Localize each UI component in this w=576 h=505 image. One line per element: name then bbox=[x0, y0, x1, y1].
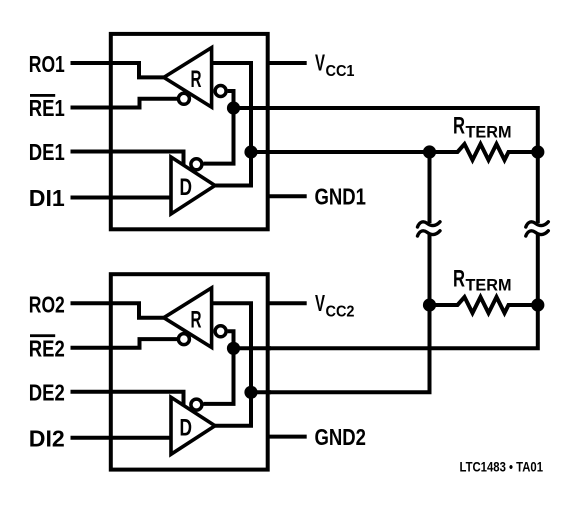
wire VCC2 stub bbox=[268, 301, 307, 305]
node left bus bottom bbox=[423, 298, 436, 311]
wire RE1 lead bbox=[71, 99, 178, 108]
receiver R2 triangle bbox=[164, 288, 212, 348]
node B2 junction bbox=[227, 342, 240, 355]
wire GND2 stub bbox=[268, 435, 307, 439]
svg-text:D: D bbox=[180, 174, 193, 201]
svg-text:R: R bbox=[453, 113, 465, 140]
node left bus top bbox=[423, 145, 436, 158]
IC box U1 outline bbox=[111, 34, 268, 229]
svg-text:TERM: TERM bbox=[466, 277, 512, 295]
svg-text:RE2: RE2 bbox=[29, 336, 65, 362]
transceiver U2 bbox=[71, 274, 307, 469]
svg-text:RE1: RE1 bbox=[29, 95, 65, 121]
IC box U2 outline bbox=[111, 274, 268, 469]
svg-text:R: R bbox=[191, 66, 202, 93]
svg-text:DI2: DI2 bbox=[29, 426, 65, 452]
wire GND1 stub bbox=[268, 194, 307, 198]
svg-text:DI1: DI1 bbox=[29, 185, 65, 211]
bubble receiver R1 inverting input bbox=[215, 86, 226, 97]
node right bus top bbox=[531, 145, 544, 158]
break symbol left bus lower squiggle bbox=[418, 231, 441, 236]
wire VCC1 stub bbox=[268, 61, 307, 65]
wire B1 to right bus bbox=[269, 108, 538, 223]
wire A1 to left bus bbox=[269, 152, 430, 223]
svg-text:CC2: CC2 bbox=[326, 303, 355, 320]
wire DE2 lead bbox=[71, 392, 184, 407]
break symbol right bus upper squiggle bbox=[526, 222, 549, 227]
driver D2 triangle bbox=[171, 397, 215, 454]
wire DE1 lead bbox=[71, 152, 184, 167]
node A1 junction bbox=[244, 145, 257, 158]
svg-text:GND2: GND2 bbox=[315, 424, 367, 450]
wire RO1 lead bbox=[71, 63, 166, 77]
break symbol left bus upper squiggle bbox=[418, 222, 441, 227]
bubble driver D1 inverting output bbox=[191, 159, 202, 170]
svg-text:V: V bbox=[315, 50, 325, 76]
wire RO2 lead bbox=[71, 303, 166, 317]
node B1 junction bbox=[227, 101, 240, 114]
resistor RTERM top bbox=[430, 144, 538, 160]
wire net B1 exit bbox=[234, 106, 272, 110]
wire net B1 (receiver inverting input to driver inverting output) bbox=[204, 91, 234, 164]
receiver R1 triangle bbox=[164, 48, 212, 108]
wire net A2 (receiver input to driver output) bbox=[212, 303, 251, 426]
transceiver U1 bbox=[71, 34, 307, 229]
bubble driver D2 inverting output bbox=[191, 399, 202, 410]
svg-text:GND1: GND1 bbox=[315, 184, 367, 210]
svg-text:RO1: RO1 bbox=[29, 51, 65, 77]
bubble RE2 enable bbox=[178, 334, 189, 345]
svg-text:R: R bbox=[191, 306, 202, 333]
bubble RE1 enable bbox=[178, 93, 189, 104]
node right bus bottom bbox=[531, 298, 544, 311]
wire net B2 exit bbox=[234, 346, 272, 350]
wire DI1 lead bbox=[71, 196, 173, 200]
bubble receiver R2 inverting input bbox=[215, 326, 226, 337]
svg-text:CC1: CC1 bbox=[326, 63, 355, 80]
wire net A1 exit bbox=[251, 150, 271, 154]
break symbol right bus lower squiggle bbox=[526, 231, 549, 236]
wire RE2 lead bbox=[71, 339, 178, 348]
driver D1 triangle bbox=[171, 157, 215, 214]
svg-text:TERM: TERM bbox=[466, 124, 512, 142]
svg-text:V: V bbox=[315, 290, 325, 316]
svg-text:D: D bbox=[180, 414, 193, 441]
wire net A2 exit bbox=[251, 390, 271, 394]
svg-text:DE1: DE1 bbox=[29, 139, 65, 165]
wire left bus lower bbox=[269, 233, 430, 392]
svg-text:R: R bbox=[453, 266, 465, 293]
svg-text:RO2: RO2 bbox=[29, 292, 65, 318]
resistor RTERM bottom bbox=[430, 297, 538, 313]
svg-text:DE2: DE2 bbox=[29, 380, 65, 406]
wire net A1 (receiver input to driver output) bbox=[212, 63, 251, 186]
wire net B2 (receiver inverting input to driver inverting output) bbox=[204, 331, 234, 404]
wire DI2 lead bbox=[71, 436, 173, 440]
svg-text:LTC1483 • TA01: LTC1483 • TA01 bbox=[460, 459, 544, 475]
wire right bus lower bbox=[269, 233, 538, 348]
node A2 junction bbox=[244, 386, 257, 399]
